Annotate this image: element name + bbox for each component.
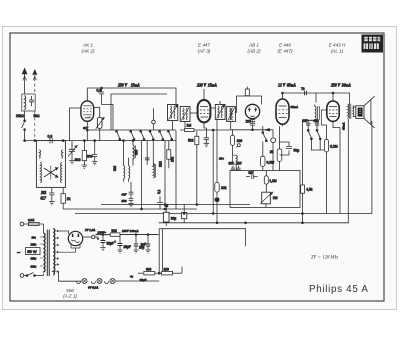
IF transformer T1 secondary — [180, 107, 190, 122]
svg-text:507: 507 — [303, 119, 309, 123]
svg-text:150v: 150v — [31, 256, 37, 260]
svg-text:0,9: 0,9 — [97, 89, 102, 93]
wire heater right drop — [181, 267, 183, 274]
wire V5 grid stub — [321, 110, 327, 125]
dial lamp LA1 — [82, 279, 87, 284]
junction bus a1 — [164, 204, 166, 206]
svg-text:65mA: 65mA — [291, 105, 298, 109]
svg-text:2k: 2k — [270, 150, 274, 154]
wire mid drop c — [152, 140, 154, 166]
wire speaker return — [371, 121, 373, 214]
svg-text:1M: 1M — [187, 123, 192, 127]
svg-text:507: 507 — [249, 171, 255, 175]
svg-text:300: 300 — [237, 139, 243, 143]
resistor R1.2M grid — [264, 171, 277, 193]
switch S3e — [159, 130, 164, 140]
junction psu 1 — [102, 234, 104, 236]
wire bus heater long — [159, 222, 349, 224]
terminal circle gang — [152, 120, 156, 124]
switch S5a tone — [307, 129, 312, 139]
resistor R0.9M — [261, 142, 275, 171]
capacitor C580 — [122, 199, 134, 204]
wire tone join — [311, 140, 326, 151]
transformer T4 secondary — [53, 229, 55, 275]
elcap C10u — [134, 235, 145, 250]
wire pot down — [265, 204, 267, 208]
transformer T4 core — [47, 230, 49, 277]
ground C580 — [128, 204, 134, 207]
fuse F1 0.5A — [24, 218, 44, 226]
svg-text:220 V 15mA: 220 V 15mA — [197, 84, 217, 88]
dial lamp LA3 — [110, 279, 115, 284]
ground C cathode — [92, 162, 98, 165]
wire V5 cathode — [333, 123, 340, 213]
trimmer C osc grid — [94, 107, 104, 140]
resistor R5k2 cathode — [188, 131, 199, 205]
junction antenna bus b — [34, 140, 36, 142]
ground C cathode V2 — [204, 143, 210, 146]
coil L det — [233, 155, 238, 170]
wire switch top bus — [87, 129, 176, 131]
svg-text:0,1: 0,1 — [157, 189, 161, 194]
junction padder — [123, 140, 125, 142]
svg-text:600: 600 — [135, 149, 139, 155]
wire avc vertical — [164, 141, 166, 205]
svg-text:100: 100 — [164, 267, 170, 271]
capacitor C507b horizontal — [246, 171, 258, 179]
junction bus g3 — [302, 213, 304, 215]
junction bus g1 — [183, 213, 185, 215]
wire mid drop b — [146, 141, 148, 165]
svg-text:50μ: 50μ — [294, 149, 300, 153]
wire T1 sec to V2 grid — [190, 112, 198, 114]
resistor R600 heater — [144, 267, 162, 275]
lamp loops — [77, 281, 109, 283]
antenna A2 (dashed alt) — [33, 70, 37, 92]
switch S5b tone — [316, 129, 321, 139]
capacitor C70 — [301, 87, 306, 95]
wire V2 cathode — [204, 122, 206, 128]
wire det bus left — [231, 129, 253, 131]
wire mid drop a — [141, 141, 143, 209]
enclosure box AF — [230, 171, 300, 208]
svg-text:(AB 2): (AB 2) — [247, 49, 260, 54]
junction bus h3 — [302, 222, 304, 224]
border frame — [10, 33, 384, 301]
wire jack down — [272, 143, 274, 171]
power rating box 55W — [17, 248, 40, 257]
lamp symbol avc — [215, 198, 219, 223]
svg-text:1μF: 1μF — [141, 243, 147, 247]
elcap C50u cathode — [280, 142, 300, 155]
terminal HT — [92, 235, 95, 238]
svg-text:500: 500 — [112, 229, 118, 233]
svg-text:AK 1: AK 1 — [82, 43, 93, 48]
junction psu 4 — [147, 234, 149, 236]
svg-text:0,9M: 0,9M — [267, 161, 275, 165]
svg-text:607: 607 — [122, 193, 127, 197]
svg-text:(A Z 1): (A Z 1) — [63, 294, 77, 299]
svg-text:20μ: 20μ — [171, 217, 177, 221]
coil L2c lower-left — [40, 162, 41, 182]
resistor R2k cathode V4 — [270, 126, 282, 170]
svg-text:507: 507 — [237, 162, 243, 166]
coil L4a padder — [124, 141, 125, 182]
switch S3d — [149, 130, 154, 140]
capacitor C0.9 series antenna — [48, 135, 53, 144]
coil box L2 outline — [36, 141, 65, 188]
wire heater resistor row — [138, 272, 143, 274]
wire screen feed L — [102, 104, 114, 130]
wire rectifier out — [83, 236, 92, 238]
svg-text:607: 607 — [229, 162, 235, 166]
wire pot return — [265, 213, 267, 215]
svg-text:E 447: E 447 — [198, 43, 210, 48]
wire T1 right drop — [175, 131, 177, 210]
wire V1 grid feed — [70, 108, 81, 141]
wire jack chain — [272, 130, 274, 137]
variable capacitor C500 tuning — [68, 141, 81, 162]
svg-text:3,2M: 3,2M — [330, 145, 338, 149]
capacitor C1u psu — [141, 235, 151, 250]
wire gang link dashed — [34, 111, 36, 142]
switch S3b — [130, 130, 135, 140]
dial lamp LA2 — [97, 279, 102, 284]
switch S3a — [116, 130, 121, 140]
tube V4 E446 — [276, 97, 289, 126]
svg-text:1k: 1k — [67, 197, 71, 201]
svg-text:~: ~ — [17, 251, 20, 257]
svg-text:Philips 45 A: Philips 45 A — [309, 284, 369, 295]
terminal mains L — [20, 222, 24, 226]
svg-text:600: 600 — [146, 267, 152, 271]
junction det — [252, 129, 254, 131]
svg-text:(AK 2): (AK 2) — [81, 49, 94, 54]
junction bus h2 — [245, 222, 247, 224]
wire gang stub — [153, 108, 155, 130]
capacitor C pad mid — [145, 158, 150, 160]
resistor R300 det — [231, 135, 235, 145]
svg-text:(E 447): (E 447) — [277, 49, 293, 54]
tube V1 AK1 octode — [81, 97, 94, 141]
resistor R500 — [95, 229, 159, 237]
resistor R300 cathode — [82, 141, 92, 165]
tube V6 rectifier 506 — [59, 231, 83, 252]
choke L5 smoothing — [315, 105, 320, 123]
wire T3 anode bottom — [347, 119, 349, 223]
junction antenna bus a — [24, 140, 26, 142]
svg-text:220V 140mA: 220V 140mA — [122, 229, 139, 233]
svg-text:(AL 1): (AL 1) — [331, 49, 344, 54]
wire T3 to speaker — [353, 107, 356, 117]
ground C1u psu — [145, 250, 150, 253]
svg-text:20v: 20v — [219, 157, 224, 161]
secondary tap arrows — [55, 230, 59, 273]
resistor R20k avc — [215, 120, 227, 197]
resistor R4.5k feedback — [301, 185, 313, 193]
transformer T4 primary — [44, 233, 46, 272]
wire box psu top — [159, 229, 245, 247]
svg-text:1,2M: 1,2M — [270, 179, 277, 183]
capacitor C200 det a — [246, 119, 256, 124]
antenna A1 — [22, 69, 27, 95]
svg-text:250 V 36mA: 250 V 36mA — [331, 84, 351, 88]
capacitor C0.9 screen — [97, 87, 105, 104]
junction dot tuning bus mid — [84, 140, 86, 142]
svg-text:E 443 H: E 443 H — [329, 43, 346, 48]
svg-text:12 V 65mA: 12 V 65mA — [278, 84, 296, 88]
svg-text:506: 506 — [66, 288, 74, 293]
wire AB1 bottom avc — [253, 129, 274, 131]
coil L2a top-left — [39, 150, 40, 159]
capacitor C cathode — [92, 141, 97, 162]
junction osc coil — [132, 140, 134, 142]
junction dot E446 bus — [282, 92, 284, 94]
wire heater bottom — [59, 272, 82, 282]
wire E447 anode top — [203, 89, 205, 98]
switch S6 mains — [24, 273, 44, 277]
svg-text:AB 1: AB 1 — [248, 43, 259, 48]
svg-text:5k2: 5k2 — [188, 139, 194, 143]
wire AB1 feed box — [237, 96, 262, 113]
svg-text:381: 381 — [41, 191, 47, 195]
wire antenna down — [24, 111, 26, 141]
svg-text:220v: 220v — [31, 264, 37, 268]
svg-text:617: 617 — [41, 197, 47, 201]
loudspeaker LS — [356, 96, 375, 128]
wire T1 sec down — [173, 121, 186, 131]
tube V3 AB1 duodiode — [245, 104, 259, 120]
svg-text:ZF = 128 kHz: ZF = 128 kHz — [311, 256, 338, 261]
wire screen bus — [111, 94, 167, 130]
coil L2b top-right — [62, 150, 63, 159]
wire feedback long — [302, 120, 304, 223]
capacitor C607 coupling — [229, 162, 236, 172]
elcap C20u — [163, 205, 176, 227]
wire bus avc long — [101, 204, 250, 206]
svg-text:300: 300 — [87, 155, 93, 159]
svg-text:4v: 4v — [130, 275, 134, 279]
IF transformer T1 primary — [168, 105, 178, 121]
svg-text:20kΩ: 20kΩ — [16, 114, 24, 118]
svg-text:1M: 1M — [273, 196, 278, 200]
junction bus g2 — [212, 213, 214, 215]
svg-text:+: + — [114, 240, 116, 244]
wire V2 anode to T2 — [210, 101, 220, 108]
resistor R1M grid horizontal — [180, 123, 231, 131]
wire bus feed — [96, 234, 159, 236]
junction mid b — [164, 208, 166, 210]
junction bus a2 — [196, 204, 198, 206]
ground C25b — [117, 250, 122, 253]
capacitor C507 tone — [303, 119, 315, 130]
resistor R6k AB1 feed — [245, 87, 249, 97]
coil L4b padder — [129, 158, 130, 182]
resistor R1k osc — [61, 188, 71, 209]
resistor R25k — [167, 141, 175, 169]
coil L3 osc — [133, 141, 136, 166]
svg-text:2kΩ: 2kΩ — [159, 161, 163, 167]
wire det left drop — [232, 130, 234, 135]
ground tuning cap — [69, 161, 75, 164]
svg-text:460: 460 — [314, 119, 320, 123]
svg-text:500: 500 — [75, 158, 81, 162]
elcap C50u2 — [182, 205, 187, 223]
svg-text:25μF: 25μF — [107, 242, 114, 246]
switch S3c — [140, 130, 145, 140]
resistor R100 heater — [162, 267, 183, 275]
diode spark symbol — [233, 144, 241, 156]
elcap C25a — [97, 235, 114, 248]
coil L mid — [153, 164, 155, 178]
svg-text:6kΩ: 6kΩ — [34, 114, 40, 118]
capacitor C607 — [122, 182, 134, 199]
junction psu 3 — [135, 234, 137, 236]
wire sec to rectifier — [59, 231, 69, 234]
wire anode bus 250V — [87, 88, 176, 104]
wire main tuning bus — [25, 140, 176, 142]
svg-text:25k: 25k — [171, 156, 175, 162]
capacitor C460 tone — [314, 119, 320, 130]
svg-text:0,9: 0,9 — [48, 135, 53, 139]
output transformer T3 secondary — [353, 106, 354, 117]
wire bus ground long — [75, 213, 372, 215]
wire E443H anode top — [332, 93, 334, 99]
primary taps — [31, 235, 44, 268]
svg-text:250 V 15mA: 250 V 15mA — [118, 84, 140, 88]
elcap C25b — [114, 235, 131, 250]
wire mains bottom to primary — [43, 274, 45, 276]
svg-text:63mA: 63mA — [342, 123, 346, 130]
wire box psu left — [158, 229, 160, 273]
svg-text:600: 600 — [113, 165, 117, 171]
arrow avc — [265, 129, 270, 131]
junction dot tuning bus left — [62, 140, 64, 142]
capacitor C osc pad — [49, 188, 54, 202]
wire T2 sec down — [230, 122, 232, 130]
antenna coil L1 with capacitor — [22, 94, 35, 111]
wire output anode bus — [316, 93, 350, 104]
svg-text:580: 580 — [122, 199, 127, 203]
terminal mains N — [20, 274, 24, 278]
svg-text:25μF: 25μF — [124, 245, 131, 249]
junction mid a — [141, 208, 143, 210]
Philips logo emblem — [362, 35, 384, 53]
svg-text:200: 200 — [246, 119, 252, 123]
capacitor C200 det b — [250, 121, 255, 130]
tube V2 E447 pentode — [198, 98, 211, 124]
potentiometer P1M volume — [260, 192, 277, 204]
ground R300 — [82, 165, 88, 168]
wire mid bus 209 — [63, 208, 197, 210]
svg-text:20k: 20k — [221, 186, 227, 190]
svg-text:E 446: E 446 — [279, 43, 291, 48]
output transformer T3 primary — [348, 104, 349, 118]
output transformer T3 core — [349, 104, 350, 119]
svg-text:20v: 20v — [32, 235, 37, 239]
svg-text:(AF 3): (AF 3) — [198, 49, 211, 54]
jack J1 — [271, 138, 276, 143]
wire avc second vertical — [212, 130, 214, 214]
switch S4 mute — [262, 126, 267, 142]
ground osc pad — [49, 202, 55, 205]
capacitor C507 coupling — [236, 162, 242, 172]
svg-text:+: + — [97, 237, 99, 241]
junction dot tuning bus right — [94, 140, 96, 142]
svg-text:70: 70 — [301, 87, 305, 91]
svg-text:220V~: 220V~ — [98, 230, 107, 234]
junction dot E443H bus — [332, 92, 334, 94]
capacitor C cathode V2 — [204, 128, 209, 143]
svg-text:125v: 125v — [31, 242, 37, 246]
capacitor C1u avc — [157, 196, 168, 209]
switch S3f — [168, 130, 173, 140]
junction psu 2 — [119, 236, 121, 238]
IF transformer T2 primary — [215, 105, 225, 120]
coil L2d lower-right — [61, 162, 62, 182]
svg-text:4,5k: 4,5k — [306, 188, 312, 192]
switch S1 antenna — [22, 120, 26, 131]
resistor R3.2M grid V5 — [324, 125, 337, 214]
junction bus h1 — [216, 222, 218, 224]
svg-text:55 W: 55 W — [27, 249, 37, 254]
tube V5 E443H output pentode — [327, 99, 339, 123]
junction heater — [158, 272, 160, 274]
ground C10u — [133, 250, 138, 253]
wire mains top to primary — [43, 224, 45, 233]
wire lamps right — [115, 280, 160, 282]
wire heater tap parallel — [162, 229, 164, 272]
ground C25a — [100, 248, 105, 251]
wire E446 anode top — [283, 93, 317, 103]
IF transformer T2 secondary — [227, 107, 236, 122]
wire choke to caps — [303, 119, 318, 121]
switch S2 crossing arrows — [44, 166, 58, 180]
